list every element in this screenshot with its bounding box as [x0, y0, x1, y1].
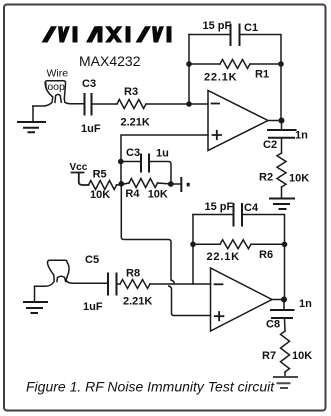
- wire R3 to op-amp U1 inverting input: [146, 103, 208, 105]
- wire R6 leads: [193, 243, 285, 245]
- capacitor C2: [268, 130, 296, 138]
- U2 minus symbol: [215, 283, 223, 285]
- wire C2 to R2: [281, 138, 283, 153]
- svg-text:2.21K: 2.21K: [123, 296, 152, 308]
- svg-text:1uF: 1uF: [81, 123, 101, 135]
- wire bias node down and across: [121, 184, 174, 283]
- resistor R3: [117, 100, 146, 109]
- wire hop resume to U2 plus input: [169, 286, 211, 316]
- node U2 output: [281, 297, 287, 303]
- U1 plus symbol: [213, 131, 222, 139]
- node R6 right: [282, 242, 288, 248]
- wire bias cap branch right: [149, 162, 171, 185]
- wire R1 leads: [189, 63, 281, 65]
- svg-text:R4: R4: [125, 188, 140, 200]
- test terminal tick: [187, 183, 190, 187]
- svg-text:R6: R6: [259, 249, 273, 261]
- wire C3 to R3: [92, 103, 118, 105]
- op-amp U2: [211, 268, 273, 331]
- wire U1 plus input down to bias node: [121, 135, 208, 184]
- node bias right: [168, 181, 174, 187]
- svg-text:22.1K: 22.1K: [207, 251, 240, 263]
- resistor R2: [277, 153, 286, 187]
- resistor R7: [281, 331, 290, 372]
- wire U1 output: [268, 120, 282, 122]
- capacitor C3 bias: [141, 155, 149, 172]
- ground 3: [270, 199, 294, 210]
- wire loop 1 inner notch: [55, 94, 61, 102]
- svg-text:C3: C3: [126, 147, 140, 159]
- capacitor C3 input: [85, 94, 92, 115]
- node U1 output: [279, 118, 285, 124]
- svg-text:Wire: Wire: [47, 68, 69, 80]
- svg-text:R8: R8: [126, 268, 140, 280]
- node R1 left: [186, 61, 192, 67]
- test terminal: [180, 178, 182, 191]
- svg-text:1uF: 1uF: [83, 301, 103, 313]
- wire R7 to ground: [284, 372, 286, 377]
- svg-text:loop: loop: [45, 81, 65, 93]
- wire C4 to right corner: [242, 215, 285, 245]
- svg-text:10K: 10K: [90, 189, 110, 201]
- svg-text:R3: R3: [124, 86, 138, 98]
- wire top branch to C4: [193, 214, 234, 216]
- wire C1 to right corner: [240, 35, 282, 65]
- svg-text:C5: C5: [85, 254, 99, 266]
- svg-text:R1: R1: [255, 69, 269, 81]
- svg-text:2.21K: 2.21K: [121, 117, 150, 129]
- svg-text:C8: C8: [266, 319, 280, 331]
- wire feedback left vertical U1: [188, 35, 190, 105]
- capacitor C1: [231, 25, 240, 46]
- wire R2 to ground: [281, 187, 283, 198]
- svg-text:1u: 1u: [156, 148, 169, 160]
- wire R4 right to corner node: [158, 183, 172, 184]
- wire bias cap branch left: [121, 161, 141, 163]
- resistor R4: [129, 179, 158, 188]
- svg-text:10K: 10K: [292, 350, 312, 362]
- ground 4: [274, 377, 297, 388]
- wire feedback right vertical to output 2: [284, 244, 286, 299]
- U1 minus symbol: [212, 103, 220, 105]
- svg-text:R5: R5: [93, 169, 107, 181]
- ground 1: [18, 122, 45, 132]
- wire R8 to U2 inverting input: [150, 283, 211, 285]
- U2 plus symbol: [215, 312, 224, 320]
- svg-text:C3: C3: [82, 78, 96, 90]
- wire loop 1: [33, 81, 84, 106]
- resistor R1: [220, 60, 250, 69]
- wire to ground 2: [34, 287, 36, 302]
- svg-text:15 pF: 15 pF: [205, 201, 234, 213]
- capacitor C4: [234, 204, 243, 226]
- svg-text:10K: 10K: [289, 173, 309, 185]
- resistor R5: [89, 181, 117, 190]
- svg-text:Vcc: Vcc: [70, 162, 88, 173]
- node bias cap tap: [118, 159, 124, 165]
- wire output to C8: [283, 300, 285, 311]
- ground 2: [24, 302, 47, 313]
- svg-text:C2: C2: [263, 139, 277, 151]
- wire loop 2: [35, 260, 109, 286]
- wire feedback right vertical to output: [280, 64, 282, 121]
- wire output to C2: [281, 121, 283, 131]
- svg-text:C4: C4: [244, 202, 259, 214]
- capacitor C5: [108, 274, 117, 295]
- wire to test terminal: [171, 183, 180, 185]
- svg-text:10K: 10K: [148, 189, 168, 201]
- svg-text:R7: R7: [262, 350, 276, 362]
- node R6 left: [190, 242, 196, 248]
- wire R5 to node: [117, 183, 130, 185]
- wire to ground 1: [32, 106, 34, 122]
- svg-text:15 pF: 15 pF: [203, 20, 232, 32]
- wire feedback left vertical U2: [192, 215, 194, 285]
- resistor R8: [120, 280, 150, 289]
- wire top branch to C1: [189, 34, 230, 36]
- MAXIM logo: [42, 26, 172, 42]
- node R1 right: [278, 61, 284, 67]
- wire C5 to R8: [117, 283, 121, 285]
- wire loop 2 inner notch: [57, 276, 66, 281]
- svg-text:R2: R2: [259, 172, 273, 184]
- svg-text:1n: 1n: [295, 130, 308, 142]
- resistor R6: [220, 240, 251, 249]
- node junction at U1 inverting input: [186, 101, 192, 107]
- Vcc terminal: [72, 173, 89, 186]
- svg-text:MAX4232: MAX4232: [79, 53, 141, 69]
- svg-text:1n: 1n: [299, 298, 312, 310]
- svg-text:C1: C1: [244, 22, 258, 34]
- svg-text:22.1K: 22.1K: [204, 72, 237, 84]
- wire C8 to R7: [284, 318, 287, 331]
- node bias: [119, 181, 125, 187]
- wire U2 output: [272, 299, 285, 301]
- op-amp U1: [208, 91, 268, 151]
- capacitor C8: [271, 310, 294, 318]
- svg-text:Figure 1. RF Noise Immunity Te: Figure 1. RF Noise Immunity Test circuit: [26, 379, 275, 395]
